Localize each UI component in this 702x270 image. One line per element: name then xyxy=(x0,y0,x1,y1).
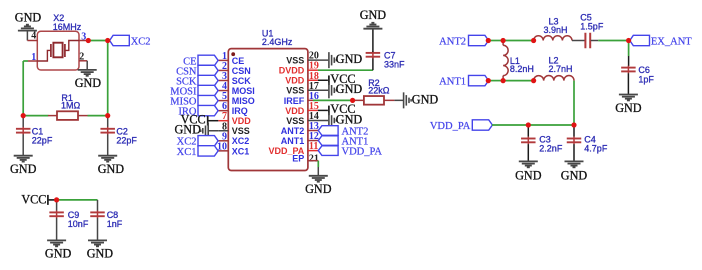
svg-text:CSN: CSN xyxy=(232,66,251,76)
svg-text:IRQ: IRQ xyxy=(232,106,248,116)
junction dot: VCC/C9 node xyxy=(54,197,59,202)
pin 5 (MISO) U1 left xyxy=(218,100,228,102)
capacitor C9 xyxy=(56,200,58,211)
wire pin1 down to R1/C1 xyxy=(23,60,28,62)
port EX_ANT xyxy=(630,35,650,45)
svg-text:GND: GND xyxy=(615,101,642,115)
ground (above C7) xyxy=(363,28,382,30)
svg-text:2.4GHz: 2.4GHz xyxy=(262,37,293,47)
capacitor C6 xyxy=(628,41,630,57)
svg-text:GND: GND xyxy=(10,162,37,176)
X2 pin 4 xyxy=(27,40,37,42)
capacitor C1 xyxy=(22,116,24,127)
svg-text:GND: GND xyxy=(336,52,363,66)
ground (below C8) xyxy=(88,239,107,241)
port XC1 (pin 10) xyxy=(198,146,218,156)
svg-text:4: 4 xyxy=(31,31,36,42)
pin 14 lead + ground xyxy=(308,119,328,121)
pin 19 lead xyxy=(308,69,318,71)
svg-text:VSS: VSS xyxy=(286,56,304,66)
svg-text:IREF: IREF xyxy=(284,96,305,106)
svg-text:XC1: XC1 xyxy=(177,147,197,158)
svg-text:GND: GND xyxy=(305,182,332,196)
capacitor C8 xyxy=(97,200,99,211)
wire ANT1 to L1 bottom xyxy=(488,80,503,82)
svg-text:GND: GND xyxy=(87,247,114,261)
inductor L2 xyxy=(534,76,574,81)
svg-text:CE: CE xyxy=(232,56,245,66)
pin 12 lead + port ANT1 xyxy=(308,140,319,142)
svg-text:8.2nH: 8.2nH xyxy=(510,64,534,74)
svg-text:VDD: VDD xyxy=(285,76,305,86)
resistor R2 xyxy=(353,99,364,101)
port SCK xyxy=(198,75,218,85)
svg-text:GND: GND xyxy=(336,82,363,96)
capacitor C7 xyxy=(372,57,374,70)
inductor L1 xyxy=(502,41,504,46)
pin 8 (VSS) U1 left xyxy=(218,130,228,132)
wire to R1 xyxy=(23,115,48,117)
pin 20 lead + ground xyxy=(308,59,328,61)
ground (right of X2, pin 2) xyxy=(86,61,88,70)
svg-text:ANT1: ANT1 xyxy=(439,77,466,88)
svg-text:XC1: XC1 xyxy=(232,146,250,156)
resistor R1 xyxy=(48,115,57,117)
junction dot: R1-right/C2 node xyxy=(105,113,110,118)
wire VDD_PA to C3/C4 xyxy=(492,124,574,126)
junction dot: XC2 node xyxy=(105,38,110,43)
wire L2 down to C4 xyxy=(573,81,575,125)
port XC2 xyxy=(110,35,130,45)
svg-text:VDD_PA: VDD_PA xyxy=(430,121,471,132)
svg-text:VCC: VCC xyxy=(21,192,46,206)
svg-text:2.2nF: 2.2nF xyxy=(539,144,563,154)
port CSN xyxy=(198,65,218,75)
junction dot: X2 pin 3 xyxy=(86,38,91,43)
svg-text:GND: GND xyxy=(412,92,439,106)
svg-text:MISO: MISO xyxy=(232,96,255,106)
ground (below C9) xyxy=(47,239,66,241)
svg-text:EX_ANT: EX_ANT xyxy=(651,37,692,48)
pin 9 (XC2) U1 left xyxy=(218,140,228,142)
svg-text:GND: GND xyxy=(45,247,72,261)
wire L1 top to L3 xyxy=(503,40,533,42)
capacitor C3 xyxy=(527,125,529,137)
port MISO xyxy=(198,95,218,105)
svg-text:16MHz: 16MHz xyxy=(53,22,82,32)
pin 16 lead (IREF) xyxy=(308,99,313,101)
crystal X2 xyxy=(37,31,79,70)
svg-text:GND: GND xyxy=(75,76,102,90)
svg-text:22pF: 22pF xyxy=(116,136,137,146)
svg-text:2: 2 xyxy=(79,52,84,63)
junction dot: L2 left node xyxy=(531,78,536,83)
X2 pin 2 xyxy=(79,60,87,62)
svg-text:SCK: SCK xyxy=(232,76,252,86)
pin 11 lead + port VDD_PA xyxy=(308,150,319,152)
X2 pin 3 xyxy=(79,40,88,42)
svg-text:VDD_PA: VDD_PA xyxy=(342,146,383,157)
ground (below C3) xyxy=(519,160,538,162)
svg-text:VSS: VSS xyxy=(286,116,304,126)
port XC2 (pin 9) xyxy=(198,136,218,146)
pin 4 (MOSI) U1 left xyxy=(218,90,228,92)
ground (below C2) xyxy=(98,155,117,157)
junction dot: L3 left node xyxy=(531,38,536,43)
capacitor C4 xyxy=(573,125,575,137)
svg-text:GND: GND xyxy=(360,8,387,22)
wire C9 to C8 xyxy=(57,199,98,201)
pin 6 (IRQ) U1 left xyxy=(218,110,228,112)
node XC2 junction xyxy=(108,40,110,42)
svg-text:GND: GND xyxy=(336,112,363,126)
wire pin3 to XC2 junction xyxy=(88,40,107,42)
svg-text:VDD: VDD xyxy=(285,106,305,116)
svg-text:22kΩ: 22kΩ xyxy=(368,85,390,95)
junction dot: C4/L2 node xyxy=(571,122,576,127)
pin 15 lead + power VCC xyxy=(308,109,318,111)
svg-text:ANT2: ANT2 xyxy=(439,36,466,47)
svg-text:XC2: XC2 xyxy=(131,36,151,47)
svg-text:3.9nH: 3.9nH xyxy=(544,25,568,35)
ground (below EP) xyxy=(309,175,328,177)
junction dot: L1 top node xyxy=(501,38,506,43)
svg-text:ANT2: ANT2 xyxy=(281,126,305,136)
wire XC2 down to R1-right / C2 xyxy=(107,41,109,116)
junction dot: ANT2 port node xyxy=(486,38,491,43)
port CE xyxy=(198,55,218,65)
wire DVDD to C7 xyxy=(318,69,373,71)
capacitor C5 xyxy=(572,40,585,42)
junction dot: ANT1 port node xyxy=(486,78,491,83)
junction dot: C3 node xyxy=(526,122,531,127)
port IRQ xyxy=(198,105,218,115)
svg-text:ANT1: ANT1 xyxy=(281,136,305,146)
capacitor C2 xyxy=(107,116,109,127)
pin 1 (CE) U1 left xyxy=(218,59,228,61)
op-amp U1 body (2.4GHz transceiver IC) xyxy=(228,49,308,171)
svg-text:VSS: VSS xyxy=(232,126,250,136)
svg-text:GND: GND xyxy=(15,11,42,25)
pin 7 (VDD) U1 left xyxy=(218,120,228,122)
svg-text:MOSI: MOSI xyxy=(232,86,255,96)
svg-text:2.7nH: 2.7nH xyxy=(549,64,573,74)
svg-text:VDD: VDD xyxy=(232,116,252,126)
ground (below C4) xyxy=(565,160,584,162)
svg-text:GND: GND xyxy=(174,123,201,137)
pin 10 (XC1) U1 left xyxy=(218,150,228,152)
svg-text:4.7pF: 4.7pF xyxy=(584,144,608,154)
port MOSI xyxy=(198,85,218,95)
svg-text:1.5pF: 1.5pF xyxy=(580,22,604,32)
pin 18 lead + power VCC xyxy=(308,79,318,81)
junction dot: IREF/R2 node xyxy=(350,98,355,103)
pin 13 lead + port ANT2 xyxy=(308,130,319,132)
wire ANT2 to L1 xyxy=(488,40,503,42)
X2 pin 1 xyxy=(28,60,38,62)
svg-text:1MΩ: 1MΩ xyxy=(61,101,81,111)
junction dot: R1-left/C1 node xyxy=(21,113,26,118)
svg-text:VSS: VSS xyxy=(286,86,304,96)
wire L1 bottom to L2 xyxy=(503,80,533,82)
svg-text:GND: GND xyxy=(561,169,588,183)
ground (below C1) xyxy=(14,155,33,157)
pin 2 (CSN) U1 left xyxy=(218,69,228,71)
pin 17 lead + ground xyxy=(308,89,328,91)
svg-text:XC2: XC2 xyxy=(232,136,250,146)
ground (right of R2) xyxy=(403,92,405,108)
svg-text:22pF: 22pF xyxy=(32,136,53,146)
pin 3 (SCK) U1 left xyxy=(218,80,228,82)
wire IREF to R2 xyxy=(313,99,353,101)
svg-text:DVDD: DVDD xyxy=(279,66,305,76)
ground (below C6) xyxy=(619,94,638,96)
svg-text:33nF: 33nF xyxy=(384,60,405,70)
svg-text:10nF: 10nF xyxy=(68,219,89,229)
junction dot: L1 bottom node xyxy=(501,78,506,83)
svg-text:GND: GND xyxy=(98,162,125,176)
svg-text:1pF: 1pF xyxy=(638,74,654,84)
svg-text:1: 1 xyxy=(31,52,36,63)
svg-text:3: 3 xyxy=(81,31,86,42)
pin 21 (EP) lead to ground xyxy=(308,160,318,162)
inductor L3 xyxy=(534,36,572,41)
svg-text:1nF: 1nF xyxy=(107,219,123,229)
svg-text:21: 21 xyxy=(309,154,319,165)
junction dot: EX_ANT/C6 node xyxy=(626,38,631,43)
svg-text:GND: GND xyxy=(515,169,542,183)
svg-text:EP: EP xyxy=(292,154,304,164)
